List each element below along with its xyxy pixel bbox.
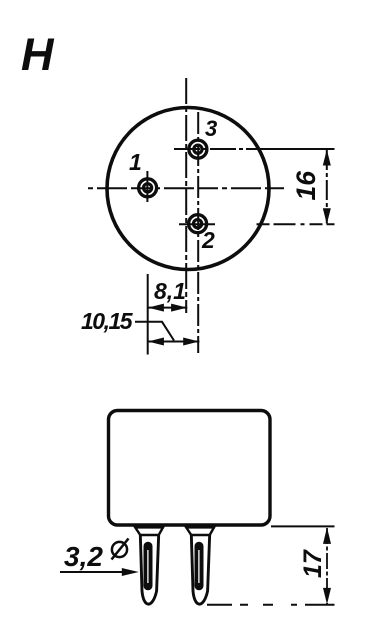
left lead slot (144, 543, 151, 590)
dimension 16 line (323, 150, 331, 225)
svg-text:16: 16 (291, 171, 321, 201)
leader arrow to left lead (60, 568, 139, 576)
extension line pin1 below (147, 274, 149, 355)
svg-text:8,1: 8,1 (154, 278, 186, 304)
left lead flange (135, 527, 163, 535)
package outline circle (top view) (107, 108, 269, 270)
pin 3 (189, 140, 207, 158)
right lead flange (186, 527, 214, 535)
left lead body (140, 534, 158, 604)
vertical centerline (185, 78, 187, 313)
vertical axis line through pins 2 and 3 (197, 112, 199, 353)
dimension 10,15 leader (135, 322, 174, 341)
right lead body (191, 534, 209, 604)
horizontal axis line through pin 3 (174, 148, 262, 150)
dimension 10,15 line (148, 338, 200, 346)
pin 2 (189, 215, 207, 233)
svg-text:1: 1 (129, 149, 142, 175)
svg-text:3,2: 3,2 (64, 541, 103, 572)
package body (side view) (109, 411, 271, 526)
extension line lead tips (207, 604, 335, 606)
svg-text:H: H (21, 29, 55, 80)
extension line body bottom (271, 525, 335, 527)
horizontal centerline (88, 187, 284, 189)
horizontal axis line through pin 2 (179, 223, 215, 225)
svg-text:17: 17 (299, 549, 327, 578)
diameter symbol (112, 539, 129, 560)
pin 1 (139, 171, 157, 202)
dimension 17 line (323, 527, 331, 604)
svg-text:2: 2 (201, 227, 215, 253)
svg-text:10,15: 10,15 (81, 308, 134, 334)
svg-text:3: 3 (205, 116, 217, 141)
dimension 8,1 line (148, 304, 188, 312)
right lead slot (195, 543, 202, 590)
